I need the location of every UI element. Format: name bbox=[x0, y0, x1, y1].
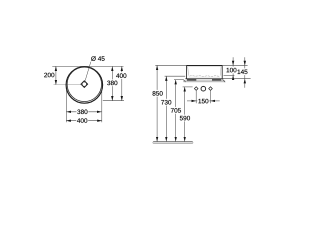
extension 590 bbox=[183, 86, 193, 88]
basin bottom line bbox=[185, 78, 223, 80]
bottom extension for vertical dims bbox=[103, 100, 124, 102]
label 400 horizontal bbox=[76, 117, 88, 124]
leader line for diameter 45 bbox=[85, 62, 91, 81]
dimension 380 horizontal bbox=[66, 111, 101, 113]
basin right inner wall bbox=[219, 67, 222, 76]
dimension 380 vertical bbox=[111, 66, 113, 100]
label 200 bbox=[44, 73, 54, 78]
dim 150 right arrow bbox=[211, 100, 220, 102]
floor top edge bbox=[153, 141, 192, 143]
dim 150 line bbox=[196, 100, 210, 102]
left vertical extension below circle bbox=[65, 90, 67, 123]
drain inner circle bbox=[82, 82, 86, 86]
label diameter 45 bbox=[91, 56, 104, 61]
basin inner rim circle bbox=[67, 67, 101, 101]
basin inner rim line bbox=[187, 66, 221, 68]
dimension 590 bbox=[184, 87, 186, 142]
dimension 400 horizontal bbox=[66, 120, 102, 122]
dim 150 left arrow bbox=[187, 100, 196, 102]
dim 145 upper arrow bbox=[244, 57, 246, 65]
fixing hole diamond right bbox=[209, 87, 213, 91]
basin right wall bbox=[221, 65, 223, 79]
dim 100 lower arrow bbox=[232, 75, 234, 80]
extension inner depth 100 bbox=[224, 74, 235, 76]
extension rim top right bbox=[223, 64, 248, 66]
label 145 bbox=[236, 68, 248, 75]
dimension 705 bbox=[175, 80, 177, 142]
label 400 vertical bbox=[115, 72, 127, 79]
right foot block bbox=[212, 79, 221, 81]
extension bottom 145 bbox=[222, 78, 250, 80]
dimension 730 bbox=[165, 76, 167, 141]
countertop slab bbox=[184, 81, 225, 82]
label 705 bbox=[170, 107, 182, 114]
dim 145 middle segment bbox=[244, 65, 246, 78]
basin rim top line bbox=[186, 64, 222, 66]
basin outer rim circle bbox=[66, 67, 103, 104]
extension 850 rim top left bbox=[155, 64, 186, 66]
top extension line over circle bbox=[52, 65, 123, 67]
drain diamond bbox=[81, 81, 88, 88]
interior bottom squiggle bbox=[190, 75, 220, 78]
dimension 200 vertical bbox=[55, 66, 57, 84]
slab left break mark bbox=[183, 79, 185, 82]
dim 100 middle segment bbox=[232, 65, 234, 75]
label 380 vertical bbox=[106, 79, 118, 86]
dimension 400 vertical bbox=[121, 66, 123, 100]
dim 145 lower arrow bbox=[244, 79, 246, 88]
label 850 bbox=[152, 90, 164, 97]
tap hole circle bbox=[201, 86, 206, 91]
extension 730 bbox=[165, 75, 186, 77]
interior bottom faint line bbox=[189, 76, 221, 78]
floor bar bbox=[153, 142, 193, 144]
dim 100 upper arrow bbox=[232, 57, 234, 65]
basin left inner wall bbox=[187, 67, 190, 76]
left foot block bbox=[187, 79, 196, 81]
label 380 horizontal bbox=[76, 108, 88, 115]
right vertical extension below circle bbox=[101, 90, 103, 123]
dim 150 right tick bbox=[210, 91, 212, 103]
fixing hole diamond left bbox=[194, 87, 198, 91]
slab right break mark bbox=[223, 79, 226, 82]
dimension 850 bbox=[156, 65, 158, 141]
label 100 bbox=[225, 67, 237, 74]
dim 150 left tick bbox=[195, 91, 197, 103]
label 730 bbox=[160, 99, 172, 106]
basin left wall bbox=[186, 65, 188, 79]
label 150 bbox=[197, 98, 209, 105]
extension 705 bbox=[174, 79, 183, 81]
label 590 bbox=[179, 115, 191, 122]
center line to drain bbox=[54, 84, 82, 86]
